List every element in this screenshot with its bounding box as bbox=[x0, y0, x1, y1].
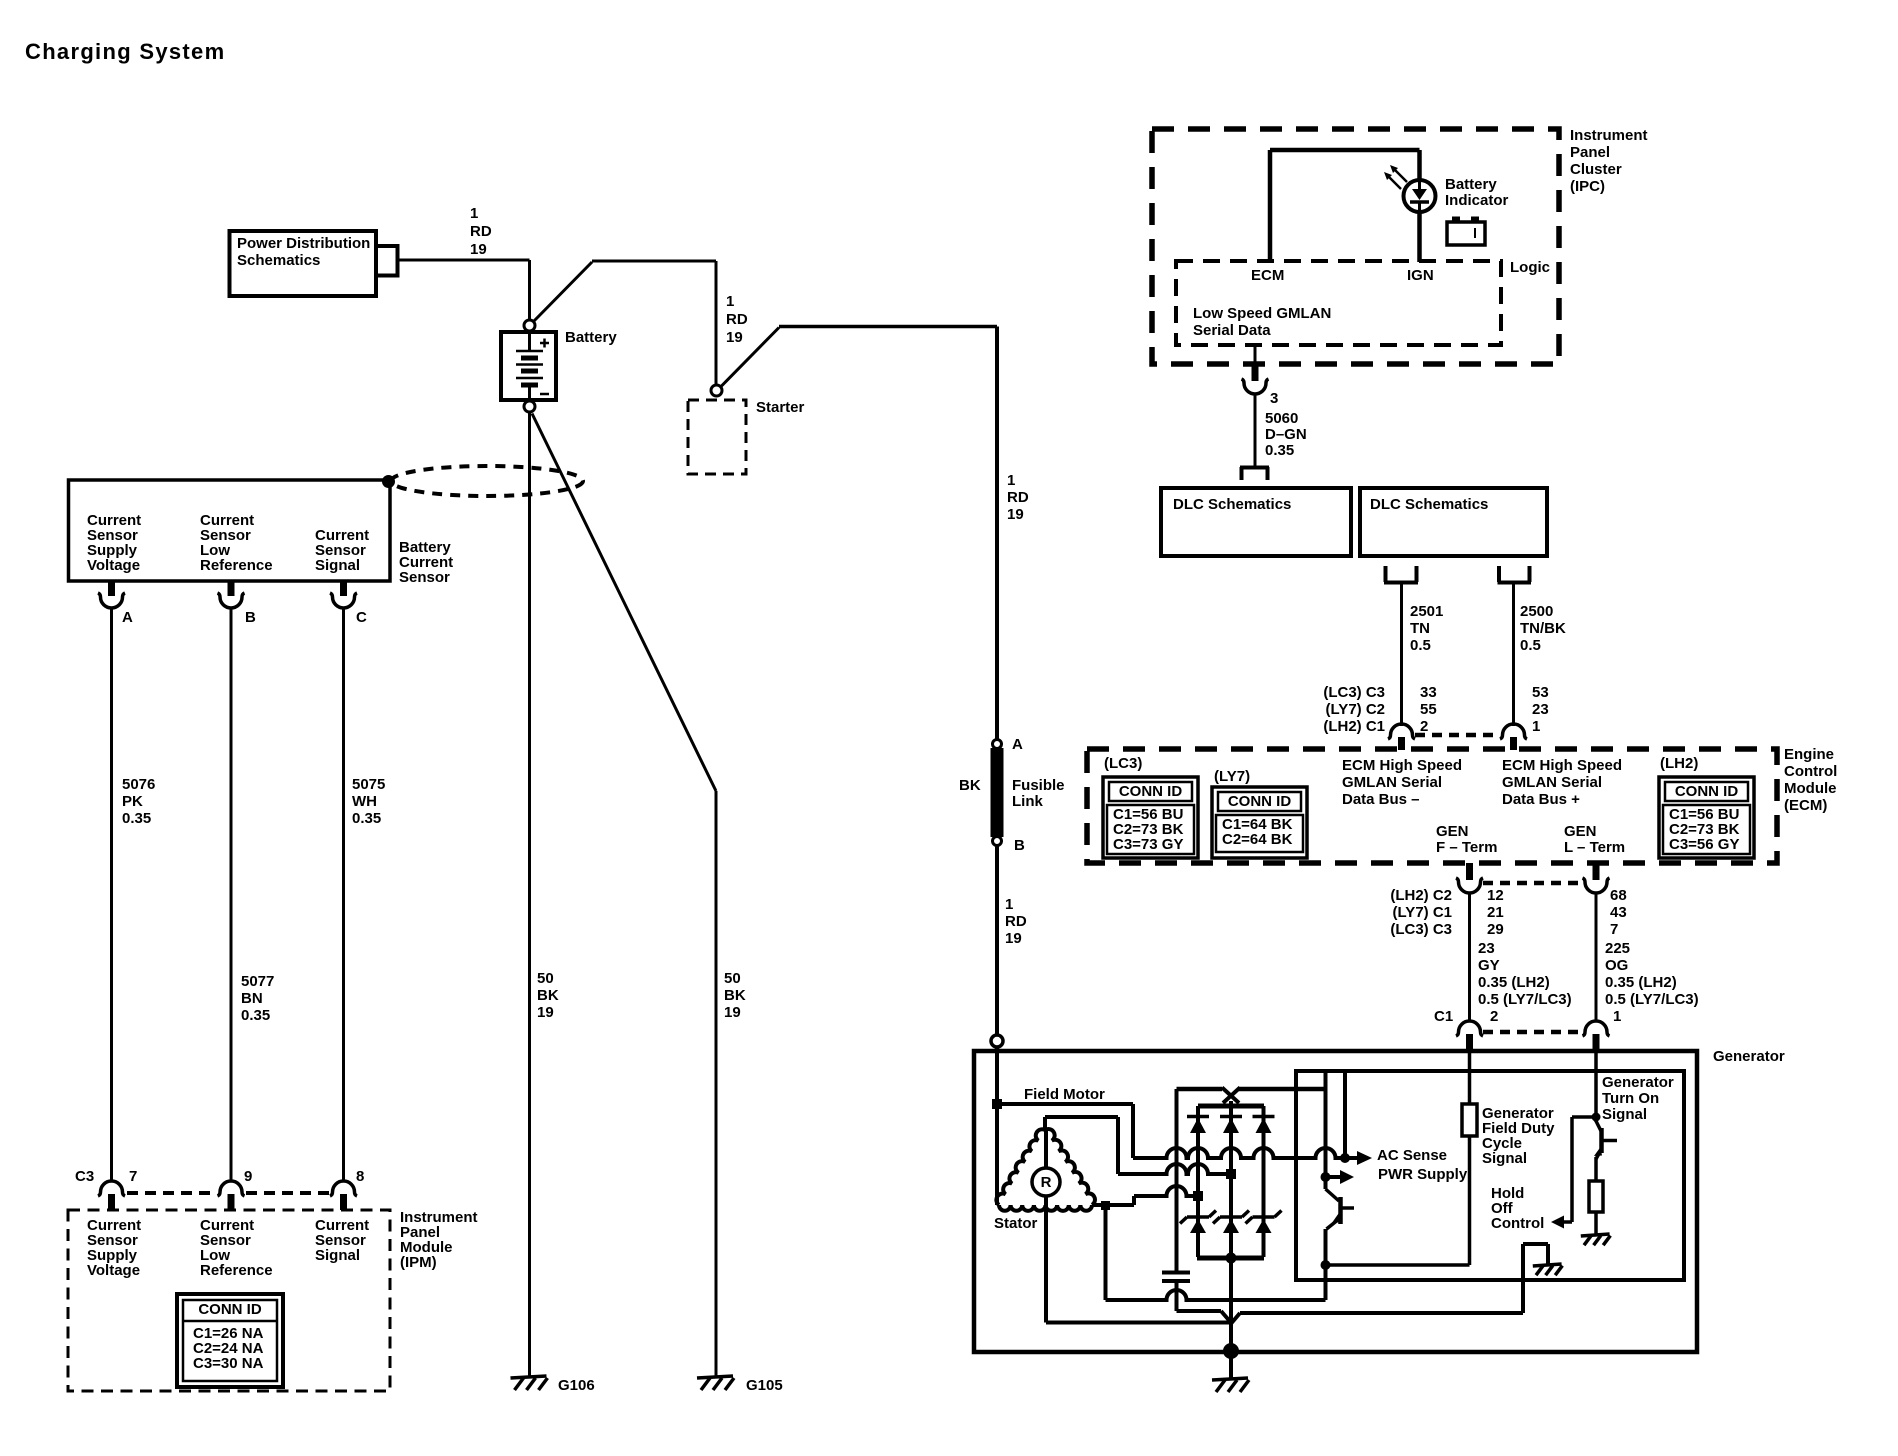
wire rectifier bus to capacitor bbox=[1175, 1089, 1179, 1271]
connector C3 label bbox=[75, 1168, 94, 1185]
junction field node bbox=[992, 1099, 1002, 1109]
box Instrument Panel Module (IPM, dashed) bbox=[68, 1210, 390, 1391]
svg-text:33: 33 bbox=[1420, 684, 1437, 701]
wire battery indicator to IGN bbox=[1417, 211, 1422, 262]
wire generator case to ground bbox=[1229, 1352, 1233, 1378]
junction AC sense node bbox=[1340, 1153, 1350, 1163]
wire 50 BK 19 (battery negative to G105) bbox=[532, 414, 746, 1377]
svg-text:55: 55 bbox=[1420, 701, 1437, 718]
svg-text:2: 2 bbox=[1420, 718, 1428, 735]
wire 5075 WH 0.35 (pin C to IPM pin 8) bbox=[344, 608, 386, 1181]
svg-text:Engine: Engine bbox=[1784, 746, 1834, 763]
svg-text:Fusible: Fusible bbox=[1012, 777, 1065, 794]
svg-text:C3: C3 bbox=[75, 1168, 94, 1185]
rectifier top bus bbox=[1177, 1087, 1326, 1092]
label ECM High Speed GMLAN Serial Data Bus - bbox=[1342, 757, 1462, 808]
svg-text:50: 50 bbox=[724, 970, 741, 987]
connector pin 9 of IPM (C3) bbox=[218, 1168, 253, 1210]
node starter terminal bbox=[711, 385, 722, 396]
ground G105 bbox=[697, 1376, 783, 1394]
box Logic (dashed, inside IPC) bbox=[1176, 261, 1501, 345]
box Battery Current Sensor bbox=[69, 480, 391, 581]
svg-text:2501: 2501 bbox=[1410, 603, 1443, 620]
harness ellipse (dashed) bbox=[391, 466, 583, 496]
svg-text:D–GN: D–GN bbox=[1265, 426, 1307, 443]
node A of fusible link bbox=[993, 736, 1024, 753]
svg-text:GY: GY bbox=[1478, 957, 1500, 974]
resistor generator field duty cycle bbox=[1462, 1052, 1477, 1265]
svg-text:GMLAN Serial: GMLAN Serial bbox=[1502, 774, 1602, 791]
svg-text:CONN ID: CONN ID bbox=[198, 1301, 262, 1318]
wire stator right vertex to rectifier left column bbox=[1092, 1186, 1198, 1205]
wire label 1 RD 19 (battery feed) bbox=[470, 205, 492, 258]
svg-text:Serial Data: Serial Data bbox=[1193, 322, 1271, 339]
arrow AC Sense bbox=[1345, 1147, 1447, 1165]
rectifier bus crossover X bbox=[1222, 1088, 1240, 1108]
connector at IPC bottom (serial data) bbox=[1242, 345, 1279, 407]
svg-text:53: 53 bbox=[1532, 684, 1549, 701]
svg-text:0.35: 0.35 bbox=[241, 1007, 270, 1024]
svg-text:19: 19 bbox=[537, 1004, 554, 1021]
connector at ECM top (data bus plus) bbox=[1500, 724, 1527, 750]
title Charging System bbox=[25, 39, 225, 64]
svg-text:PK: PK bbox=[122, 793, 143, 810]
svg-text:Signal: Signal bbox=[1602, 1106, 1647, 1123]
svg-text:C2=64 BK: C2=64 BK bbox=[1222, 831, 1293, 848]
svg-text:RD: RD bbox=[470, 223, 492, 240]
node B of fusible link bbox=[993, 837, 1026, 855]
svg-text:AC Sense: AC Sense bbox=[1377, 1147, 1447, 1164]
transistor Q1 field driver bbox=[1326, 1189, 1355, 1300]
connector bracket at Power Distribution box bbox=[377, 244, 398, 278]
pin variants label (LH2/LY7/LC3) at generator connector bbox=[1390, 887, 1452, 938]
svg-text:PWR Supply: PWR Supply bbox=[1378, 1166, 1468, 1183]
svg-text:7: 7 bbox=[1610, 921, 1618, 938]
svg-text:C3=56 GY: C3=56 GY bbox=[1669, 836, 1739, 853]
svg-text:Starter: Starter bbox=[756, 399, 805, 416]
junction PWR supply node bbox=[1321, 1172, 1331, 1182]
junction phase at rectifier center column bbox=[1226, 1169, 1236, 1179]
connector pin A of Battery Current Sensor bbox=[98, 581, 133, 626]
resistor turn-on pull-down bbox=[1589, 1181, 1603, 1234]
svg-text:68: 68 bbox=[1610, 887, 1627, 904]
svg-text:1: 1 bbox=[726, 293, 734, 310]
svg-text:R: R bbox=[1041, 1174, 1052, 1191]
svg-text:2500: 2500 bbox=[1520, 603, 1553, 620]
svg-text:C3=73 GY: C3=73 GY bbox=[1113, 836, 1183, 853]
transistor Q2 turn-on bbox=[1594, 1121, 1617, 1181]
box DLC Schematics (left) bbox=[1161, 488, 1351, 556]
label ECM High Speed GMLAN Serial Data Bus + bbox=[1502, 757, 1622, 808]
box Engine Control Module (ECM, dashed) bbox=[1087, 749, 1777, 863]
pin numbers 68 43 7 bbox=[1610, 887, 1627, 938]
svg-text:Generator: Generator bbox=[1713, 1048, 1785, 1065]
svg-text:Generator: Generator bbox=[1602, 1074, 1674, 1091]
wire battery to starter (1 RD 19) bbox=[534, 261, 717, 385]
svg-text:RD: RD bbox=[1005, 913, 1027, 930]
svg-text:(LH2) C2: (LH2) C2 bbox=[1390, 887, 1452, 904]
svg-text:BK: BK bbox=[959, 777, 981, 794]
svg-text:A: A bbox=[1012, 736, 1023, 753]
svg-text:Reference: Reference bbox=[200, 557, 273, 574]
svg-text:0.35 (LH2): 0.35 (LH2) bbox=[1478, 974, 1550, 991]
wire stator bottom tap bbox=[1101, 1201, 1110, 1300]
table CONN ID of IPM bbox=[177, 1294, 283, 1387]
svg-text:Logic: Logic bbox=[1510, 259, 1550, 276]
svg-text:OG: OG bbox=[1605, 957, 1628, 974]
svg-text:7: 7 bbox=[129, 1168, 137, 1185]
wire rotor return to ground rail bbox=[1046, 1321, 1231, 1325]
svg-text:Data Bus +: Data Bus + bbox=[1502, 791, 1580, 808]
connector bracket above DLC Schematics bbox=[1240, 467, 1269, 480]
svg-text:B: B bbox=[245, 609, 256, 626]
stator delta winding bbox=[996, 1104, 1095, 1211]
label Generator bbox=[1713, 1048, 1785, 1065]
svg-text:0.35: 0.35 bbox=[122, 810, 151, 827]
wire generator terminal to field node bbox=[995, 1047, 999, 1104]
wire F-term to field transistor emitter node bbox=[1326, 1263, 1470, 1267]
pin numbers 12 21 29 bbox=[1487, 887, 1504, 938]
box Power Distribution Schematics bbox=[230, 231, 377, 296]
svg-text:Link: Link bbox=[1012, 793, 1043, 810]
wire L-term to turn-on transistor bbox=[1594, 1052, 1598, 1122]
svg-text:Battery: Battery bbox=[1445, 176, 1497, 193]
wire turn-on node to hold off arrow bbox=[1572, 1117, 1596, 1222]
svg-text:CONN ID: CONN ID bbox=[1228, 793, 1292, 810]
svg-text:3: 3 bbox=[1270, 390, 1278, 407]
svg-text:BK: BK bbox=[724, 987, 746, 1004]
svg-text:Signal: Signal bbox=[315, 1247, 360, 1264]
label Hold Off Control bbox=[1491, 1185, 1544, 1232]
ground at generator case bbox=[1212, 1378, 1249, 1392]
svg-text:CONN ID: CONN ID bbox=[1675, 783, 1739, 800]
svg-text:(LH2): (LH2) bbox=[1660, 755, 1698, 772]
junction harness dot at sensor box corner bbox=[382, 475, 395, 488]
pin numbers 53 23 1 bbox=[1532, 684, 1549, 735]
label (LC3) bbox=[1104, 755, 1142, 772]
label Engine Control Module (ECM) bbox=[1784, 746, 1837, 814]
box Generator bbox=[974, 1051, 1697, 1352]
connector pin C1 2 at generator bbox=[1434, 1008, 1498, 1052]
wire field motor feed bbox=[997, 1104, 1133, 1158]
svg-text:DLC Schematics: DLC Schematics bbox=[1370, 496, 1488, 513]
wire 2500 TN/BK 0.5 bbox=[1514, 584, 1566, 726]
ground at turn-on resistor bbox=[1581, 1234, 1611, 1245]
svg-text:B: B bbox=[1014, 837, 1025, 854]
svg-text:G106: G106 bbox=[558, 1377, 595, 1394]
label Generator Field Duty Cycle Signal bbox=[1482, 1105, 1555, 1167]
wire label 225 OG 0.35(LH2) 0.5(LY7/LC3) bbox=[1605, 940, 1699, 1008]
pin variants label (LC3/LY7/LH2) bbox=[1323, 684, 1385, 735]
svg-text:Control: Control bbox=[1491, 1215, 1544, 1232]
svg-text:TN/BK: TN/BK bbox=[1520, 620, 1566, 637]
svg-text:(LY7) C2: (LY7) C2 bbox=[1326, 701, 1385, 718]
svg-text:(LH2) C1: (LH2) C1 bbox=[1323, 718, 1385, 735]
svg-text:Voltage: Voltage bbox=[87, 557, 140, 574]
wire field line to AC Sense (with hops) bbox=[1133, 1148, 1345, 1158]
junction phase at rectifier left column bbox=[1193, 1191, 1203, 1201]
connector pin 7 of IPM (C3) bbox=[98, 1168, 137, 1210]
svg-text:ECM High Speed: ECM High Speed bbox=[1502, 757, 1622, 774]
svg-text:Turn On: Turn On bbox=[1602, 1090, 1659, 1107]
wire 50 BK 19 (battery negative to G106) bbox=[530, 412, 559, 1376]
svg-text:ECM High Speed: ECM High Speed bbox=[1342, 757, 1462, 774]
diode bottom avalanche (column 1231) bbox=[1213, 1211, 1249, 1234]
svg-text:43: 43 bbox=[1610, 904, 1627, 921]
node battery negative terminal bbox=[524, 401, 535, 412]
svg-text:5060: 5060 bbox=[1265, 410, 1298, 427]
svg-text:Signal: Signal bbox=[1482, 1150, 1527, 1167]
wire starter to fusible link feed bbox=[721, 327, 997, 741]
node generator battery terminal bbox=[991, 1035, 1003, 1047]
table CONN ID (LY7) bbox=[1212, 787, 1307, 858]
wire right ground branch bbox=[1523, 1244, 1548, 1313]
rotor R (field winding) bbox=[1032, 1130, 1060, 1323]
label (LY7) bbox=[1214, 768, 1250, 785]
label (LH2) bbox=[1660, 755, 1698, 772]
indicator lamp battery indicator (LED) bbox=[1384, 165, 1436, 212]
svg-text:L – Term: L – Term bbox=[1564, 839, 1625, 856]
svg-text:0.5: 0.5 bbox=[1410, 637, 1431, 654]
svg-text:(IPM): (IPM) bbox=[400, 1254, 437, 1271]
wire 5060 D-GN 0.35 bbox=[1255, 394, 1307, 466]
rectifier bottom bus bbox=[1197, 1256, 1264, 1261]
svg-text:RD: RD bbox=[1007, 489, 1029, 506]
connector at ECM top (data bus minus) bbox=[1388, 724, 1415, 750]
wire 2501 TN 0.5 bbox=[1402, 584, 1444, 726]
label GEN L-Term bbox=[1564, 823, 1625, 856]
svg-text:1: 1 bbox=[1005, 896, 1013, 913]
svg-text:BK: BK bbox=[537, 987, 559, 1004]
svg-text:1: 1 bbox=[1613, 1008, 1621, 1025]
svg-text:Voltage: Voltage bbox=[87, 1262, 140, 1279]
wire capacitor lower lead bbox=[1177, 1283, 1231, 1322]
svg-text:19: 19 bbox=[726, 329, 743, 346]
svg-text:23: 23 bbox=[1478, 940, 1495, 957]
rectifier column at x=1263.5 bbox=[1262, 1106, 1266, 1257]
rectifier column at x=1231 bbox=[1229, 1106, 1233, 1257]
wire GEN F-Term (23 GY) bbox=[1468, 893, 1471, 1021]
svg-text:C: C bbox=[356, 609, 367, 626]
wire 5076 PK 0.35 (pin A to IPM pin 7) bbox=[112, 608, 156, 1181]
box voltage regulator (inner) bbox=[1296, 1071, 1684, 1280]
label GEN F-Term bbox=[1436, 823, 1497, 856]
svg-text:Sensor: Sensor bbox=[399, 569, 450, 586]
svg-text:IGN: IGN bbox=[1407, 267, 1434, 284]
svg-text:50: 50 bbox=[537, 970, 554, 987]
diode top (column 1198) bbox=[1187, 1117, 1209, 1134]
diode bottom avalanche (column 1198) bbox=[1180, 1211, 1216, 1234]
svg-text:(LC3) C3: (LC3) C3 bbox=[1323, 684, 1385, 701]
svg-text:19: 19 bbox=[470, 241, 487, 258]
svg-text:GEN: GEN bbox=[1436, 823, 1469, 840]
svg-text:RD: RD bbox=[726, 311, 748, 328]
svg-text:Panel: Panel bbox=[1570, 144, 1610, 161]
svg-text:2: 2 bbox=[1490, 1008, 1498, 1025]
connector bracket below DLC (2500) bbox=[1498, 566, 1532, 583]
rectifier bridge top bar bbox=[1198, 1104, 1264, 1109]
wire stator bottom to regulator tap (with hop over capacitor) bbox=[1106, 1265, 1326, 1300]
svg-text:Charging System: Charging System bbox=[25, 39, 225, 64]
svg-text:19: 19 bbox=[724, 1004, 741, 1021]
svg-text:0.5 (LY7/LC3): 0.5 (LY7/LC3) bbox=[1605, 991, 1699, 1008]
wire Power Distribution to Battery bbox=[398, 260, 530, 320]
label Battery Indicator bbox=[1445, 176, 1509, 209]
arrow Hold Off Control bbox=[1551, 1216, 1572, 1229]
svg-text:Field Motor: Field Motor bbox=[1024, 1086, 1105, 1103]
svg-text:1: 1 bbox=[1007, 472, 1015, 489]
svg-text:225: 225 bbox=[1605, 940, 1630, 957]
svg-text:0.5: 0.5 bbox=[1520, 637, 1541, 654]
junction rectifier bottom bus to ground rail bbox=[1226, 1253, 1237, 1264]
svg-text:Schematics: Schematics bbox=[237, 252, 320, 269]
junction generator case node bbox=[1223, 1343, 1239, 1359]
table CONN ID (LC3) bbox=[1103, 777, 1198, 858]
svg-text:0.5 (LY7/LC3): 0.5 (LY7/LC3) bbox=[1478, 991, 1572, 1008]
wire label 23 GY 0.35(LH2) 0.5(LY7/LC3) bbox=[1478, 940, 1572, 1008]
svg-text:(LY7) C1: (LY7) C1 bbox=[1393, 904, 1452, 921]
label Low Speed GMLAN Serial Data bbox=[1193, 305, 1331, 339]
dashed connector line C3 bbox=[127, 1191, 329, 1195]
box DLC Schematics (right) bbox=[1360, 488, 1547, 556]
box Instrument Panel Cluster (IPC, dashed) bbox=[1152, 129, 1559, 364]
junction ground rail merge bbox=[1232, 1313, 1524, 1323]
svg-text:0.35: 0.35 bbox=[352, 810, 381, 827]
label Instrument Panel Module (IPM) bbox=[400, 1209, 478, 1271]
rectifier column at x=1198 bbox=[1196, 1106, 1200, 1257]
svg-text:0.35: 0.35 bbox=[1265, 442, 1294, 459]
svg-text:5076: 5076 bbox=[122, 776, 155, 793]
table CONN ID (LH2) bbox=[1659, 777, 1754, 858]
label Generator Turn On Signal bbox=[1602, 1074, 1674, 1123]
svg-text:12: 12 bbox=[1487, 887, 1504, 904]
svg-text:5077: 5077 bbox=[241, 973, 274, 990]
wire rectifier output rail down bbox=[1229, 1258, 1233, 1351]
capacitor C1 (noise suppression) bbox=[1162, 1273, 1190, 1282]
diode top (column 1231) bbox=[1220, 1117, 1242, 1134]
starter (dashed box) bbox=[688, 399, 805, 474]
svg-text:(LC3) C3: (LC3) C3 bbox=[1390, 921, 1452, 938]
arrow PWR Supply bbox=[1326, 1166, 1468, 1184]
wire regulator B+ tap bbox=[1324, 1071, 1328, 1189]
wire GEN L-Term (225 OG) bbox=[1595, 893, 1598, 1021]
svg-text:Module: Module bbox=[1784, 780, 1837, 797]
wire label 1 RD 19 (starter to fusible link) bbox=[1007, 472, 1029, 523]
pin numbers 33 55 2 bbox=[1420, 684, 1437, 735]
diode bottom avalanche (column 1263.5) bbox=[1246, 1211, 1282, 1234]
svg-text:Stator: Stator bbox=[994, 1215, 1038, 1232]
connector pin B of Battery Current Sensor bbox=[218, 581, 257, 626]
wire label 1 RD 19 (starter feed) bbox=[726, 293, 748, 346]
node battery positive terminal bbox=[524, 320, 535, 331]
label Stator bbox=[994, 1215, 1038, 1232]
dashed connector line above generator bbox=[1483, 1030, 1583, 1035]
junction field drive node bbox=[1321, 1260, 1331, 1270]
svg-text:(IPC): (IPC) bbox=[1570, 178, 1605, 195]
connector at ECM bottom (GEN F-Term) bbox=[1456, 863, 1483, 893]
svg-text:1: 1 bbox=[470, 205, 478, 222]
svg-text:TN: TN bbox=[1410, 620, 1430, 637]
svg-text:Cluster: Cluster bbox=[1570, 161, 1622, 178]
svg-text:Low Speed GMLAN: Low Speed GMLAN bbox=[1193, 305, 1331, 322]
svg-text:A: A bbox=[122, 609, 133, 626]
svg-text:Signal: Signal bbox=[315, 557, 360, 574]
svg-text:ECM: ECM bbox=[1251, 267, 1284, 284]
svg-text:Reference: Reference bbox=[200, 1262, 273, 1279]
svg-text:(LC3): (LC3) bbox=[1104, 755, 1142, 772]
connector pin 1 at generator bbox=[1583, 1008, 1622, 1052]
label Field Motor bbox=[1024, 1086, 1105, 1103]
wire stator top vertex feed bbox=[1045, 1117, 1118, 1174]
connector pin C of Battery Current Sensor bbox=[330, 581, 367, 626]
wire AC sense tap bbox=[1343, 1071, 1347, 1158]
svg-text:C3=30 NA: C3=30 NA bbox=[193, 1355, 264, 1372]
label Logic bbox=[1510, 259, 1550, 276]
label Battery Current Sensor bbox=[399, 539, 453, 586]
svg-text:CONN ID: CONN ID bbox=[1119, 783, 1183, 800]
svg-text:Battery: Battery bbox=[565, 329, 617, 346]
connector pin 8 of IPM (C3) bbox=[330, 1168, 364, 1210]
dashed connector line at ECM top bbox=[1415, 733, 1500, 738]
svg-text:1: 1 bbox=[1532, 718, 1540, 735]
connector at ECM bottom (GEN L-Term) bbox=[1583, 863, 1610, 893]
junction turn-on node bbox=[1592, 1113, 1601, 1122]
svg-text:23: 23 bbox=[1532, 701, 1549, 718]
ground G106 bbox=[511, 1376, 595, 1394]
wire stator phase to rectifier center (with hops) bbox=[1118, 1164, 1231, 1174]
svg-text:5075: 5075 bbox=[352, 776, 385, 793]
svg-text:GMLAN Serial: GMLAN Serial bbox=[1342, 774, 1442, 791]
svg-text:DLC Schematics: DLC Schematics bbox=[1173, 496, 1291, 513]
svg-text:WH: WH bbox=[352, 793, 377, 810]
svg-text:19: 19 bbox=[1005, 930, 1022, 947]
wire 1 RD 19 (fusible link to generator) bbox=[997, 846, 1027, 1035]
svg-text:Control: Control bbox=[1784, 763, 1837, 780]
svg-text:29: 29 bbox=[1487, 921, 1504, 938]
svg-text:(ECM): (ECM) bbox=[1784, 797, 1827, 814]
svg-text:BN: BN bbox=[241, 990, 263, 1007]
svg-text:Indicator: Indicator bbox=[1445, 192, 1509, 209]
svg-text:F – Term: F – Term bbox=[1436, 839, 1497, 856]
wire ECM to battery indicator (inside IPC) bbox=[1270, 150, 1420, 262]
svg-text:8: 8 bbox=[356, 1168, 364, 1185]
svg-text:C1: C1 bbox=[1434, 1008, 1453, 1025]
battery icon in IPC bbox=[1447, 217, 1485, 246]
svg-text:Instrument: Instrument bbox=[1570, 127, 1648, 144]
svg-text:GEN: GEN bbox=[1564, 823, 1597, 840]
svg-text:9: 9 bbox=[244, 1168, 252, 1185]
wire 5077 BN 0.35 (pin B to IPM pin 9) bbox=[231, 608, 274, 1181]
battery B1 bbox=[501, 329, 617, 401]
svg-text:21: 21 bbox=[1487, 904, 1504, 921]
svg-text:(LY7): (LY7) bbox=[1214, 768, 1250, 785]
fusible link (BK) bbox=[959, 748, 1065, 837]
svg-text:Power Distribution: Power Distribution bbox=[237, 235, 370, 252]
svg-text:Data Bus –: Data Bus – bbox=[1342, 791, 1420, 808]
dashed connector line below ECM bbox=[1483, 881, 1583, 886]
svg-text:0.35 (LH2): 0.35 (LH2) bbox=[1605, 974, 1677, 991]
connector bracket below DLC (2501) bbox=[1384, 566, 1418, 583]
label Instrument Panel Cluster (IPC) bbox=[1570, 127, 1648, 195]
svg-text:19: 19 bbox=[1007, 506, 1024, 523]
ground at regulator (hold off) bbox=[1533, 1264, 1563, 1275]
diode top (column 1263.5) bbox=[1253, 1117, 1275, 1134]
svg-text:G105: G105 bbox=[746, 1377, 783, 1394]
